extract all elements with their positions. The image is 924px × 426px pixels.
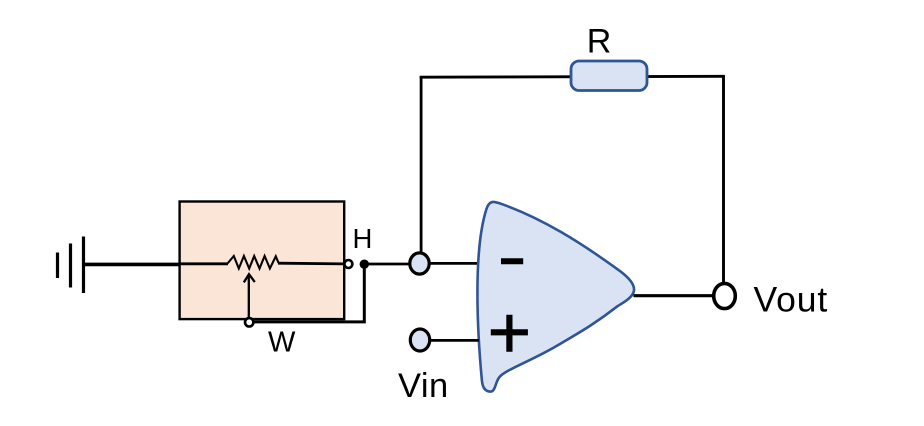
resistive element zigzag [228,256,279,269]
wire zigzag to terminal H [278,262,345,265]
terminal H (open circle) [344,260,352,268]
feedback wire right vertical [722,76,725,285]
svg-text:Vout: Vout [754,279,829,319]
svg-text:H: H [353,223,373,254]
wire node H to inverting node [368,263,411,266]
plus sign [491,315,528,352]
svg-text:R: R [587,22,612,60]
wire node to op-amp minus input [429,262,479,265]
svg-text:W: W [268,327,296,359]
terminal W (open circle) [245,318,253,326]
junction node H (dot) [360,260,369,269]
wire Vin terminal to op-amp plus input [429,339,479,342]
wire op-amp output to Vout terminal [634,294,715,297]
wiper arrow [244,274,255,318]
feedback wire left vertical [420,76,423,254]
wire ground to potentiometer [84,263,181,267]
node inverting input (ellipse) [410,253,429,274]
terminal Vin (ellipse) [410,329,429,351]
terminal Vout (circle) [714,283,736,308]
wire into resistive element [180,262,228,265]
resistor R [571,61,647,91]
wire terminal W to node H [254,264,365,322]
potentiometer body POT1 [180,202,345,320]
op-amp U1 [477,202,634,392]
feedback wire top horizontal [420,75,725,79]
svg-text:Vin: Vin [398,367,449,405]
minus sign [501,258,523,264]
ground [58,237,84,294]
